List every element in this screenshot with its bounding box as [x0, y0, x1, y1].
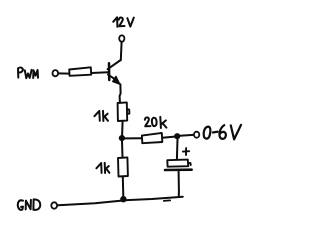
wire node B to C1 — [176, 139, 179, 159]
ground rail overlap stroke — [164, 199, 170, 202]
label PWM — [18, 68, 38, 79]
label 1k (R3) — [96, 163, 109, 173]
resistor R4 20k — [142, 133, 162, 143]
wire R3 to ground rail — [122, 177, 125, 197]
label 20k — [145, 117, 167, 128]
capacitor C1 positive plate — [167, 160, 190, 167]
label 0-6V — [204, 125, 241, 139]
wire C1 to ground rail — [178, 172, 180, 197]
resistor R2 (base series) — [69, 67, 91, 76]
transistor Q1 — [108, 60, 121, 84]
resistor R3 — [118, 157, 128, 176]
wire PWM terminal to R2 — [59, 72, 69, 74]
capacitor C1 negative plate — [165, 168, 192, 171]
terminal GND — [51, 202, 57, 208]
wire node A to R4 — [125, 137, 142, 139]
junction node B — [174, 133, 180, 139]
terminal PWM — [53, 70, 59, 76]
label 12V — [113, 17, 134, 27]
junction node GND — [120, 196, 126, 202]
label 1k (R1) — [94, 111, 108, 121]
wire node A to R3 — [121, 141, 124, 157]
terminal 12V — [119, 35, 124, 41]
junction node A — [119, 135, 125, 141]
wire R4 to node B — [162, 137, 174, 138]
wire node B to output terminal — [180, 134, 194, 137]
output terminal — [194, 132, 199, 138]
label GND — [18, 199, 40, 210]
wire emitter to R1 — [120, 84, 121, 102]
resistor R1 — [118, 102, 130, 121]
wire R2 to base — [91, 71, 108, 74]
ground rail — [58, 197, 183, 206]
capacitor C1 plus sign — [183, 148, 189, 155]
wire 12V to collector — [120, 42, 123, 60]
wire R1 to node A — [121, 121, 124, 135]
